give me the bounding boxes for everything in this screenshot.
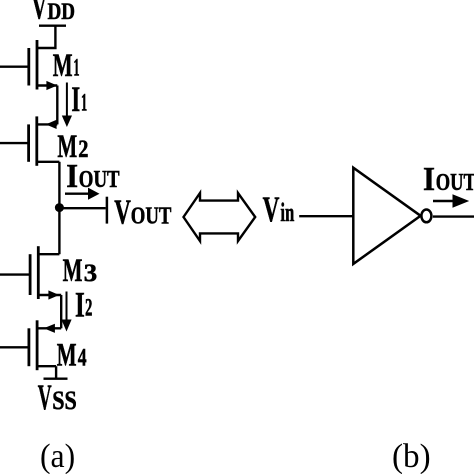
- inverter U1: [353, 168, 420, 264]
- node output junction: [55, 203, 64, 212]
- wire M3 gate: [0, 273, 30, 275]
- svg-text:(a): (a): [40, 438, 75, 474]
- transistor M4: [29, 320, 61, 370]
- svg-text:DD: DD: [48, 0, 76, 24]
- svg-text:in: in: [280, 198, 294, 227]
- wire M4 gate: [0, 346, 29, 348]
- inverter output bubble: [421, 210, 431, 223]
- svg-text:2: 2: [78, 136, 88, 163]
- wire inverter output: [433, 215, 474, 217]
- wire M1 gate: [0, 65, 29, 67]
- svg-text:1: 1: [73, 55, 79, 82]
- svg-text:I: I: [75, 285, 85, 325]
- svg-text:3: 3: [84, 260, 97, 287]
- label M4: [57, 338, 87, 374]
- svg-text:I: I: [423, 161, 435, 198]
- svg-text:OUT: OUT: [131, 203, 172, 229]
- power VDD rail tick: [39, 25, 66, 27]
- svg-text:M: M: [57, 338, 77, 374]
- svg-text:OUT: OUT: [436, 170, 474, 196]
- wire M1 source to M2 drain: [56, 86, 58, 125]
- svg-text:V: V: [263, 189, 280, 229]
- svg-text:4: 4: [78, 344, 87, 371]
- svg-text:2: 2: [85, 295, 92, 322]
- label M3: [63, 253, 98, 289]
- label M1: [53, 48, 80, 84]
- current arrow IOUT: [65, 188, 100, 200]
- label VDD: [32, 0, 75, 27]
- terminal VOUT tick: [106, 197, 109, 224]
- svg-text:(b): (b): [392, 438, 431, 474]
- svg-text:M: M: [63, 253, 83, 289]
- wire Vin to inverter input: [299, 215, 353, 217]
- label Vin: [263, 189, 295, 229]
- transistor M3: [30, 246, 61, 299]
- wire output node to M3 drain: [58, 208, 60, 255]
- transistor M1: [29, 40, 58, 90]
- label I2: [75, 285, 92, 325]
- svg-text:V: V: [32, 0, 47, 27]
- svg-text:M: M: [53, 48, 73, 84]
- transistor M2: [29, 116, 60, 165]
- wire VDD to M1 drain: [37, 26, 55, 48]
- svg-text:I: I: [71, 79, 80, 119]
- svg-text:I: I: [66, 158, 78, 195]
- svg-text:V: V: [114, 192, 131, 231]
- wire M4 source to VSS: [55, 366, 57, 379]
- label M2: [57, 129, 88, 165]
- label IOUT: [66, 158, 119, 195]
- power VSS rail tick: [44, 378, 68, 380]
- label VSS: [38, 377, 77, 417]
- current arrow I2: [61, 292, 71, 332]
- label IOUT (right): [423, 161, 474, 198]
- current arrow IOUT (right): [433, 194, 469, 208]
- svg-text:1: 1: [81, 90, 87, 117]
- current arrow I1: [62, 83, 72, 128]
- svg-text:OUT: OUT: [79, 167, 120, 193]
- label VOUT: [114, 192, 171, 231]
- svg-text:V: V: [38, 377, 52, 417]
- wire M2 gate: [0, 142, 29, 144]
- label I1: [71, 79, 87, 119]
- wire output node to VOUT terminal: [59, 207, 105, 209]
- equivalence arrow: [184, 193, 256, 241]
- svg-text:SS: SS: [52, 386, 76, 415]
- wire M3 source to M4 drain: [60, 295, 62, 328]
- wire M2 source to output node: [58, 162, 60, 208]
